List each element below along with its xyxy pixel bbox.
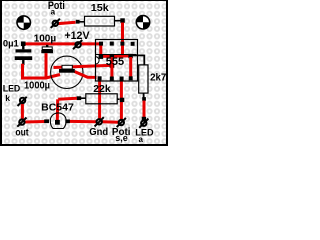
connection pad LED-k: [18, 97, 27, 106]
wire x112 link: [110, 57, 113, 79]
fiducial top-left: [16, 15, 31, 30]
wire Poti-a pad to 15k: [58, 22, 75, 23]
wire 0u1 to 1000u minus: [23, 64, 61, 78]
capacitor 1000u plus plate: [62, 65, 72, 69]
node square above LED-a pad: [142, 117, 146, 121]
wire base drop: [56, 99, 59, 120]
connection pad Poti-a: [51, 19, 60, 28]
IC 555 pin2: [110, 77, 114, 81]
transistor collector cap: [65, 120, 70, 124]
connection pad Poti-s,e: [117, 118, 126, 127]
resistor 22k right lead: [117, 98, 119, 100]
svg-text:100µ: 100µ: [34, 33, 57, 44]
IC 555 pin5: [131, 42, 135, 46]
node square 0u1-top: [21, 42, 26, 47]
wire 100u down: [45, 53, 48, 79]
node cap 22k-left: [77, 96, 82, 100]
connection pad LED-a: [139, 119, 148, 128]
capacitor 1000u minus bar: [59, 69, 75, 73]
svg-text:a: a: [138, 135, 143, 144]
wire 555 pin3 to Poti-s,e pad: [120, 79, 123, 122]
svg-text:s,e: s,e: [115, 133, 128, 144]
IC 555 pin1: [98, 76, 102, 80]
transistor Q BC547 body: [50, 113, 66, 129]
wire 22k left to BC547 base: [58, 98, 77, 99]
node square wire/15k-left: [76, 20, 80, 24]
svg-text:0µ1: 0µ1: [3, 38, 19, 49]
IC 555 pin7: [110, 42, 114, 46]
wire BC547 collector to Gnd pad: [70, 120, 97, 123]
svg-text:k: k: [5, 93, 10, 103]
svg-text:Gnd: Gnd: [89, 127, 108, 138]
wire 15k down to 555 rail: [121, 23, 124, 58]
capacitor 1000u body: [51, 56, 83, 88]
resistor 2k7 body: [139, 65, 148, 93]
wire +12V rail: [25, 42, 101, 45]
connection pad +12V: [73, 40, 82, 49]
wire mid rail black top line: [96, 54, 137, 56]
capacitor 100u plus plate: [42, 47, 52, 50]
resistor 2k7 bottom lead: [143, 93, 145, 98]
wire 555 pin4 drop: [129, 57, 132, 78]
svg-text:BC547: BC547: [41, 102, 74, 113]
node square cap-wire: [110, 63, 115, 68]
wire LED-k pad down to out pad: [21, 103, 24, 119]
capacitor 0u1 bottom lead: [22, 60, 24, 65]
node square 22k-right: [120, 98, 124, 102]
IC 555 pin8: [99, 42, 103, 46]
IC 555 pin4: [129, 76, 133, 80]
capacitor 0u1 plate2: [15, 56, 33, 60]
wire 1000u plus to 555 pin2 node: [54, 65, 111, 67]
capacitor 100u lead: [46, 45, 48, 47]
wire 1000u minus to 555 pin1: [75, 72, 97, 78]
connection pad out: [17, 118, 26, 127]
IC 555 pin3: [120, 77, 124, 81]
node square pin7-rail: [110, 54, 115, 59]
connection pad Gnd: [95, 117, 104, 126]
wire 2k7 to LED-a pad: [143, 101, 146, 121]
transistor base square: [55, 120, 60, 125]
IC 555 body: [96, 40, 138, 82]
svg-text:+12V: +12V: [65, 30, 91, 42]
svg-text:555: 555: [106, 56, 124, 68]
node square 15k-right: [120, 18, 125, 23]
svg-text:15k: 15k: [91, 2, 109, 14]
svg-text:LED: LED: [3, 84, 21, 94]
resistor 22k left lead: [79, 97, 86, 99]
svg-text:22k: 22k: [93, 83, 111, 95]
wire mid rail red part: [101, 54, 131, 58]
svg-text:out: out: [15, 128, 29, 139]
resistor 15k right lead: [115, 20, 121, 22]
wire rail to 2k7 black: [131, 54, 144, 56]
capacitor 0u1 top lead: [22, 46, 24, 50]
node square rail-2k7: [128, 54, 132, 58]
IC 555 pin6: [120, 42, 124, 46]
svg-text:a: a: [51, 7, 56, 16]
fiducial top-right: [136, 15, 151, 30]
node square 2k7-bottom: [142, 97, 146, 101]
wire Gnd pad to Poti-s,e pad: [102, 120, 118, 124]
wire out pad to BC547 emitter: [25, 120, 45, 124]
transistor emitter cap: [44, 119, 49, 123]
capacitor 0u1 plate1: [16, 49, 32, 52]
svg-text:1000µ: 1000µ: [24, 80, 50, 92]
resistor 15k body: [85, 16, 115, 26]
border frame: [0, 0, 2, 146]
resistor 15k left lead: [80, 21, 85, 23]
wire 555 pin8 to mid rail: [99, 45, 102, 57]
node square pin8-rail: [99, 54, 104, 59]
IC 555 notch: [96, 57, 100, 64]
wire 555 pin1 to Gnd pad: [98, 79, 101, 121]
svg-text:2k7: 2k7: [150, 73, 166, 84]
resistor 22k body: [86, 94, 117, 104]
capacitor 100u minus plate: [41, 50, 53, 53]
